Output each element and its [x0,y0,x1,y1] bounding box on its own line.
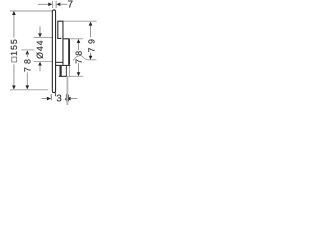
wire gray outlet stub [66,77,68,105]
node dim34 arrow left [67,97,71,101]
node dim78L line lower [26,72,28,86]
wire bottom extension line y89.8 [10,89,48,91]
node dim155 line lower [13,64,15,85]
node dim78 arrow down [77,72,81,76]
node dim44 lower tail [39,65,41,72]
wire ext line diam44 bottom [33,61,52,63]
node R2 top edge [63,38,69,40]
node label 7 [68,1,73,8]
node dim34 left ext tick [50,94,52,100]
node label diam 44 [37,41,44,59]
node lower line x66.35 [65,65,67,76]
node dim78L line upper [26,53,28,57]
node dim7 arrow right [48,3,52,7]
node dim78L arrow down [26,85,30,89]
node label 78 left [24,59,30,71]
wire ext line right of body top [69,38,83,40]
node dim34 right ext tick [65,94,67,102]
node dim155 arrow up [12,11,16,15]
node lower bar left line [59,65,61,76]
node dim78L arrow up [26,50,30,54]
node spindle bottom line [56,64,70,66]
node dim155 arrow down [12,85,16,89]
node label 79 [88,39,94,51]
box R1 upper housing [58,21,63,38]
node dim79 arrow up [89,22,93,26]
node label 78 [76,51,82,63]
node label square 155 [11,40,17,63]
node dim44 arrow up [38,62,42,66]
wire squiggle ext line [73,55,96,60]
node dim155 line upper [13,11,15,37]
node dim79 line upper [90,25,92,38]
node spindle top line [56,61,63,63]
node dim34 right line [70,98,77,100]
node R2 right edge thick [68,39,70,65]
node dim44 upper tail [39,26,41,34]
wire ext line y22 [64,20,97,22]
wire top extension line [10,10,52,12]
node R1 bottom edge [57,37,61,39]
node body bottom edge [59,75,67,77]
node plate lower stub [55,93,57,97]
wire ext line diam44 top [33,36,52,38]
node R2 left edge [62,38,64,64]
wire ext line y49.9 for left 78 dim [22,49,35,51]
node dim78 line lower [78,63,80,73]
plate side profile [52,10,55,93]
node dim79 arrow down [89,56,93,60]
node dim34 left line [42,98,48,100]
node label 3 4 [57,95,70,102]
node dim44 arrow down [38,33,42,37]
wire ext line right of body bottom [67,75,83,77]
node R2 right edge gray lower [68,65,70,77]
node dim34 arrow right [47,97,51,101]
node dim7 right line [59,3,67,5]
node dim7 arrow left [56,3,60,7]
node dim79 line lower [90,53,92,57]
node dim78 arrow up [77,39,81,43]
node dim7 left line [38,3,49,5]
node dim78 line upper [78,42,80,50]
node dim7 tick right [55,1,57,8]
node dim7 tick left [52,1,54,8]
